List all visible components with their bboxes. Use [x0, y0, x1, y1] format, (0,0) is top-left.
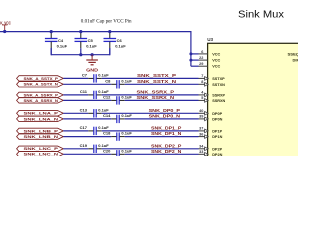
svg-text:0.1uF: 0.1uF [115, 43, 126, 48]
wire C19 to pin 34 [102, 148, 199, 150]
svg-text:SNK_LNB_P: SNK_LNB_P [24, 129, 59, 133]
svg-text:8: 8 [201, 80, 203, 84]
svg-text:0.1uF: 0.1uF [98, 89, 109, 94]
svg-text:36: 36 [199, 132, 203, 136]
svg-text:0.1uF: 0.1uF [121, 131, 132, 136]
svg-text:U3: U3 [207, 37, 213, 42]
pin 29 VCC [191, 65, 199, 67]
svg-text:SNK_DP0_N: SNK_DP0_N [149, 113, 180, 118]
pin 5 SSRXN [199, 99, 209, 101]
wire C17 to pin 37 [102, 130, 199, 132]
svg-text:GND: GND [86, 67, 98, 72]
wire C20 to pin 33 [125, 153, 199, 155]
svg-text:DP1N: DP1N [212, 135, 222, 139]
svg-text:SNK_SSTX_N: SNK_SSTX_N [137, 79, 176, 84]
junction ground tap [91, 53, 94, 56]
svg-text:DP1P: DP1P [212, 129, 222, 133]
junction VCC pin 6 [189, 52, 192, 55]
wire C11 to pin 4 [102, 94, 199, 96]
svg-text:SNK_DP1_N: SNK_DP1_N [151, 131, 181, 136]
svg-text:SNK_SSRX_N: SNK_SSRX_N [137, 95, 175, 100]
svg-text:0.01uF Cap per VCC Pin: 0.01uF Cap per VCC Pin [81, 20, 132, 25]
svg-text:SSRXN: SSRXN [212, 99, 225, 103]
junction at SNK_VCC flag [3, 30, 6, 33]
svg-text:DP0N: DP0N [212, 117, 222, 121]
svg-text:0.1uF: 0.1uF [98, 72, 109, 77]
net flag SNK_LNB_N [17, 134, 64, 139]
svg-text:C20: C20 [103, 148, 111, 153]
svg-text:SNK_DP2_P: SNK_DP2_P [151, 143, 181, 148]
capacitor C18 0.1uF [111, 136, 117, 138]
svg-text:0.1uF: 0.1uF [121, 78, 132, 83]
svg-text:SNK_LNC_N: SNK_LNC_N [24, 153, 59, 156]
wire C14 to pin 39 [125, 118, 199, 120]
svg-text:5: 5 [201, 96, 203, 100]
svg-text:33: 33 [199, 150, 203, 154]
svg-text:SSRXP: SSRXP [212, 93, 225, 97]
svg-text:C14: C14 [103, 113, 111, 118]
svg-text:SSTXP: SSTXP [212, 77, 225, 81]
svg-text:SNK_A_SSTX_P: SNK_A_SSTX_P [24, 77, 59, 81]
capacitor C4 0.1uF [50, 32, 52, 38]
wire C12 to pin 5 [125, 99, 199, 101]
wire C7 to pin 7 [102, 77, 199, 79]
pin 36 DP1N [199, 136, 209, 138]
svg-text:SNK_SSRX_P: SNK_SSRX_P [137, 89, 175, 94]
capacitor C13 0.1uF [88, 112, 94, 114]
svg-text:Sink Mux: Sink Mux [238, 9, 284, 20]
wire VCC rail horizontal [0, 31, 191, 33]
svg-text:0.1uF: 0.1uF [98, 107, 109, 112]
junction C4 top [50, 30, 53, 33]
pin 22 VCC [191, 59, 199, 61]
wire SNK_LNC_P to C19 [63, 148, 88, 150]
svg-text:VCC: VCC [212, 65, 220, 69]
pin 33 DP2N [199, 153, 209, 155]
pin 4 SSRXP [199, 94, 209, 96]
svg-text:C17: C17 [80, 125, 88, 130]
svg-text:SNK_A_SSTX_N: SNK_A_SSTX_N [24, 83, 59, 87]
pin 40 DP0P [199, 112, 209, 114]
junction VCC pin 22 [189, 59, 192, 62]
svg-text:C7: C7 [82, 72, 88, 77]
capacitor C12 0.1uF [111, 99, 117, 101]
svg-text:SNK_SSTX_P: SNK_SSTX_P [137, 73, 176, 78]
pin 39 DP0N [199, 118, 209, 120]
svg-text:C19: C19 [80, 143, 88, 148]
svg-text:C5: C5 [88, 38, 94, 43]
pin 37 DP1P [199, 130, 209, 132]
wire SNK_LNC_N to C20 [63, 153, 111, 155]
pin 34 DP2P [199, 148, 209, 150]
wire SNK_A_SSRX_N to C12 [63, 99, 111, 101]
svg-text:C4: C4 [58, 38, 64, 43]
svg-text:37: 37 [199, 127, 203, 131]
junction C5 bottom [79, 53, 82, 56]
net flag SNK_A_SSTX_P [17, 76, 64, 81]
net flag SNK_LNC_N [17, 152, 64, 157]
svg-text:22: 22 [199, 56, 203, 60]
capacitor C11 0.1uF [88, 94, 94, 96]
wire C8 to pin 8 [125, 83, 199, 85]
capacitor C19 0.1uF [88, 148, 94, 150]
wire SNK_LNB_P to C17 [63, 130, 88, 132]
pin 8 SSTXN [199, 83, 209, 85]
wire ground rail [51, 54, 110, 56]
pin 7 SSTXP [199, 77, 209, 79]
svg-text:C13: C13 [80, 107, 88, 112]
net flag SNK_A_SSTX_N [17, 82, 64, 87]
svg-text:C8: C8 [105, 78, 111, 83]
svg-text:C6: C6 [117, 38, 123, 43]
svg-text:SNK_LNA_N: SNK_LNA_N [24, 117, 59, 121]
wire SNK_LNA_P to C13 [63, 112, 88, 114]
capacitor C20 0.1uF [111, 153, 117, 155]
svg-text:0.1uF: 0.1uF [86, 43, 97, 48]
svg-text:SNK_A_SSRX_P: SNK_A_SSRX_P [24, 93, 59, 97]
svg-text:0.1uF: 0.1uF [121, 148, 132, 153]
IC U3 Sink Mux body [208, 43, 304, 161]
net flag SNK_A_SSRX_P [17, 92, 64, 97]
wire SNK_A_SSRX_P to C11 [63, 94, 88, 96]
svg-text:C11: C11 [80, 89, 88, 94]
svg-text:DP0P: DP0P [212, 112, 222, 116]
net flag SNK_LNA_N [17, 116, 64, 121]
svg-text:0.1uF: 0.1uF [121, 94, 132, 99]
svg-text:0.1uF: 0.1uF [121, 113, 132, 118]
capacitor C8 0.1uF [111, 83, 117, 85]
svg-text:SSEQ1: SSEQ1 [288, 52, 299, 56]
svg-text:C12: C12 [103, 94, 111, 99]
capacitor C6 0.1uF [109, 32, 111, 38]
svg-text:40: 40 [199, 109, 203, 113]
svg-text:SNK_DP1_P: SNK_DP1_P [151, 125, 181, 130]
svg-text:VCC: VCC [212, 52, 220, 56]
wire VCC rail vertical [190, 31, 192, 66]
pin 6 VCC [191, 53, 199, 55]
svg-text:7: 7 [201, 74, 203, 78]
svg-text:0.1uF: 0.1uF [57, 43, 68, 48]
svg-text:DP2P: DP2P [212, 147, 222, 151]
net flag SNK_A_SSRX_N [17, 98, 64, 103]
svg-text:DIR1: DIR1 [293, 59, 299, 63]
svg-text:0.1uF: 0.1uF [98, 125, 109, 130]
wire C13 to pin 40 [102, 112, 199, 114]
wire SNK_LNA_N to C14 [63, 118, 111, 120]
svg-text:VCC: VCC [212, 59, 220, 63]
wire SNK_LNB_N to C18 [63, 136, 111, 138]
net flag SNK_LNB_P [17, 128, 64, 133]
svg-text:29: 29 [199, 62, 203, 66]
wire C18 to pin 36 [125, 136, 199, 138]
net flag SNK_LNA_P [17, 111, 64, 116]
svg-text:SNK_DP0_P: SNK_DP0_P [149, 108, 180, 113]
net flag SNK_LNC_P [17, 146, 64, 151]
wire SNK_A_SSTX_P to C7 [63, 77, 88, 79]
svg-text:39: 39 [199, 115, 203, 119]
capacitor C14 0.1uF [111, 118, 117, 120]
wire SNK_A_SSTX_N to C8 [63, 83, 111, 85]
svg-text:SSTXN: SSTXN [212, 83, 225, 87]
svg-text:SNK_DP2_N: SNK_DP2_N [151, 149, 181, 154]
junction C5 top [79, 30, 82, 33]
svg-text:DP2N: DP2N [212, 153, 222, 156]
capacitor C7 0.1uF [88, 77, 94, 79]
capacitor C17 0.1uF [88, 130, 94, 132]
ground GND [91, 55, 93, 60]
svg-text:SNK_LNA_P: SNK_LNA_P [24, 112, 59, 116]
svg-text:6: 6 [201, 50, 203, 54]
junction C6 top [108, 30, 111, 33]
svg-text:SNK_A_SSRX_N: SNK_A_SSRX_N [24, 99, 59, 103]
svg-text:C18: C18 [103, 131, 111, 136]
capacitor C5 0.1uF [80, 32, 82, 38]
svg-text:0.1uF: 0.1uF [98, 143, 109, 148]
svg-text:SNK_LNB_N: SNK_LNB_N [24, 135, 59, 139]
svg-text:SNK_LNC_P: SNK_LNC_P [24, 147, 59, 151]
